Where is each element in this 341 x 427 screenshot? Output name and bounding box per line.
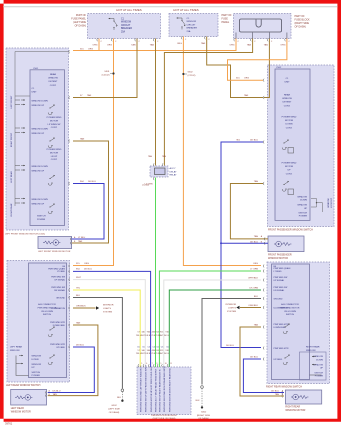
wire dk blue right rear switch to right rear motor [243, 359, 284, 393]
right rear motor symbol M4 [291, 394, 308, 400]
svg-text:(RIGHT SIDE: (RIGHT SIDE [197, 415, 211, 417]
wire tan F1 pin4 to accessory delay relay [155, 39, 157, 166]
svg-text:LIGHTS: LIGHTS [228, 307, 236, 309]
svg-text:TAN: TAN [148, 155, 153, 158]
svg-text:PWR WND SW DOWN RIGHT REAR WND: PWR WND SW DOWN RIGHT REAR WND INPUT [163, 365, 166, 412]
svg-text:WINDOW: WINDOW [282, 98, 293, 100]
wire tan right rear switch to right rear motor [240, 327, 284, 396]
wire black left rear switch to ground G1 [73, 298, 122, 389]
svg-text:ORG/BLK: ORG/BLK [76, 305, 86, 307]
svg-text:LF WINDOW: LF WINDOW [48, 124, 62, 126]
svg-text:A-B CONNECTOR: A-B CONNECTOR [38, 303, 56, 306]
svg-text:RIGHT REAR: RIGHT REAR [306, 345, 320, 348]
svg-text:PWR WND MTR: PWR WND MTR [274, 348, 289, 350]
svg-text:BLK: BLK [196, 400, 201, 402]
wire tan F1 pin3 to master switch [73, 39, 137, 98]
master switch symbol S4 [48, 203, 55, 213]
svg-text:DETENT: DETENT [283, 102, 292, 104]
svg-text:WINDOW UP: WINDOW UP [32, 105, 45, 107]
left rear motor body [11, 389, 47, 405]
svg-text:UP: UP [32, 367, 36, 369]
svg-text:SWITCH: SWITCH [37, 216, 46, 218]
left front motor symbol M1 [43, 240, 60, 246]
svg-text:CONT.: CONT. [286, 173, 293, 175]
svg-text:WINDOW DOWN: WINDOW DOWN [32, 100, 49, 102]
svg-text:TAN: TAN [201, 42, 206, 45]
accessory delay relay inner element [155, 168, 166, 175]
svg-text:SWITCH: SWITCH [314, 372, 323, 374]
svg-text:WINDOW: WINDOW [48, 78, 59, 80]
svg-text:G402: G402 [201, 412, 207, 414]
svg-text:POWER WIND: POWER WIND [282, 117, 297, 119]
right front switch body [268, 65, 335, 227]
master switch feed wire (internal) [15, 52, 69, 207]
svg-text:GROUND: GROUND [56, 297, 65, 299]
svg-text:TAN: TAN [150, 44, 155, 47]
svg-text:DK BLU: DK BLU [88, 181, 96, 183]
svg-text:TAN: TAN [131, 44, 136, 47]
fuse box F1 body [88, 14, 161, 39]
svg-text:ORG: ORG [253, 263, 258, 265]
svg-text:25A: 25A [121, 31, 126, 34]
svg-text:BLK: BLK [254, 296, 259, 298]
svg-text:UP: UP [320, 368, 324, 370]
svg-text:LEFT FRONT WINDOW MOTOR: LEFT FRONT WINDOW MOTOR [38, 251, 71, 253]
wire dk blue left rear switch to module [73, 271, 151, 367]
svg-text:POWER WIND: POWER WIND [47, 117, 62, 119]
svg-text:DELAY: DELAY [170, 170, 178, 173]
svg-text:DN SIGNAL: DN SIGNAL [54, 289, 66, 292]
svg-text:(C2102): (C2102) [102, 74, 110, 76]
svg-text:CB & DOWN: CB & DOWN [284, 311, 297, 313]
svg-text:DK G: DK G [164, 353, 169, 355]
wire tan master to left front motor down [72, 141, 109, 243]
svg-text:ORG/BLK: ORG/BLK [248, 305, 258, 307]
svg-text:PWR WND MTR: PWR WND MTR [50, 344, 65, 346]
svg-text:DK BLU: DK BLU [226, 345, 234, 347]
svg-text:INTERIOR: INTERIOR [103, 305, 114, 307]
svg-text:(LEFT SIDE OF DASH): (LEFT SIDE OF DASH) [153, 417, 176, 420]
right rear switch inner box [272, 264, 310, 380]
svg-text:WHT: WHT [76, 277, 82, 279]
svg-text:UP FEED: UP FEED [274, 359, 283, 361]
svg-text:DN SIGNAL: DN SIGNAL [274, 289, 286, 292]
svg-text:POWER: POWER [32, 375, 41, 377]
svg-text:POWER WIND: POWER WIND [282, 163, 297, 165]
svg-text:RIGHT FRONT: RIGHT FRONT [11, 132, 13, 147]
svg-text:TAN: TAN [275, 393, 280, 396]
svg-text:WINDOW: WINDOW [32, 356, 43, 358]
left rear switch inner box [29, 263, 67, 378]
svg-text:UP FEED: UP FEED [56, 347, 65, 349]
right rear switch body [267, 262, 330, 384]
wire dk green right rear switch to module [169, 290, 261, 367]
svg-text:TAN: TAN [254, 180, 259, 183]
svg-text:LR UP: LR UP [51, 156, 58, 158]
right front switch inner box [275, 69, 310, 220]
svg-text:LEFT FRONT: LEFT FRONT [11, 95, 13, 109]
svg-text:TAN: TAN [162, 155, 167, 158]
svg-text:SWITCH: SWITCH [298, 212, 307, 214]
svg-text:TAN: TAN [76, 321, 81, 324]
fuse box F2 body [169, 14, 218, 37]
svg-text:WINDOW MOTOR: WINDOW MOTOR [285, 409, 305, 412]
accessory delay relay pins [152, 163, 155, 166]
svg-text:PWR WND ACCY DELAY RELAY FEED: PWR WND ACCY DELAY RELAY FEED INPUT [155, 368, 158, 412]
ground G1 (left) [121, 389, 124, 392]
svg-text:RELAY: RELAY [170, 174, 178, 177]
svg-text:5: 5 [141, 363, 142, 365]
svg-text:DOWN: DOWN [316, 359, 323, 361]
svg-text:LT GRN: LT GRN [145, 184, 153, 186]
svg-text:PWR WND SW: PWR WND SW [51, 277, 65, 279]
svg-text:OF DASH): OF DASH) [198, 417, 209, 420]
wire white right rear switch to module [164, 280, 261, 367]
svg-text:ACCY: ACCY [170, 167, 177, 170]
svg-text:WINDOW DOWN: WINDOW DOWN [32, 199, 49, 201]
right front motor symbol M2 [274, 241, 291, 247]
svg-text:HOT AT ALL TIMES: HOT AT ALL TIMES [116, 8, 141, 12]
right rear switch loop wiring [310, 374, 322, 376]
svg-text:C502: C502 [276, 67, 282, 69]
svg-text:WINDOW: WINDOW [306, 350, 317, 352]
wire tan F2 pin2 to right front switch [207, 37, 263, 98]
svg-text:PWR WND MOTOR DOWN RIGHT REAR: PWR WND MOTOR DOWN RIGHT REAR WND [169, 367, 172, 412]
driver door module pin marks and numbers [137, 364, 140, 367]
svg-text:LIGHTS: LIGHTS [103, 308, 111, 310]
svg-text:RIGHT REAR: RIGHT REAR [10, 203, 13, 216]
wire orange F1 pin2 to left rear switch [73, 39, 114, 266]
svg-text:TAN: TAN [244, 94, 249, 97]
right front switch symbol S2 [282, 181, 289, 191]
svg-text:(LEFT SIDE: (LEFT SIDE [108, 408, 120, 410]
svg-text:BLK: BLK [76, 295, 81, 297]
svg-text:WINDOW: WINDOW [297, 196, 308, 198]
svg-text:POWER: POWER [315, 376, 324, 378]
right rear switch rows bottom box [300, 352, 327, 380]
svg-text:(C2102): (C2102) [188, 75, 196, 77]
svg-text:LEFT REAR WINDOW SWITCH: LEFT REAR WINDOW SWITCH [6, 384, 41, 387]
svg-text:7: 7 [152, 363, 153, 365]
right front motor body [268, 236, 304, 252]
wire white left rear switch to module [73, 280, 145, 367]
svg-text:ORG: ORG [107, 45, 112, 47]
svg-text:UP: UP [287, 170, 291, 172]
svg-text:PANEL: PANEL [222, 21, 230, 24]
svg-text:LT FEED: LT FEED [274, 271, 283, 273]
svg-text:TAN: TAN [264, 44, 269, 47]
svg-text:POWER WIND: POWER WIND [47, 149, 62, 151]
svg-text:ORG: ORG [88, 48, 93, 50]
left rear switch symbol S1 [48, 326, 55, 336]
svg-text:A-B CONNECTOR: A-B CONNECTOR [281, 303, 299, 306]
left rear switch loop wiring [16, 356, 29, 376]
svg-text:CONT.: CONT. [286, 127, 293, 129]
svg-text:DK BLU: DK BLU [76, 344, 84, 346]
svg-text:WINDOW: WINDOW [10, 350, 21, 352]
svg-text:REAR: REAR [50, 73, 56, 76]
left rear motor symbol M3 [15, 395, 32, 401]
svg-text:LEFT REAR: LEFT REAR [10, 345, 22, 348]
circuit breaker CB1 glyph [109, 18, 118, 30]
wire tan F3 pin2 to accessory delay relay [164, 39, 252, 166]
wire lt green relay to driver door module [155, 178, 157, 368]
master switch symbol S2 [48, 137, 55, 147]
svg-text:SWITCH: SWITCH [32, 372, 41, 374]
gray top rule [3, 6, 337, 8]
accessory delay relay body [150, 166, 168, 177]
svg-text:RIGHT REAR WINDOW SWITCH: RIGHT REAR WINDOW SWITCH [266, 385, 302, 388]
master switch symbol S1 [48, 104, 55, 114]
svg-text:CONT.: CONT. [50, 85, 57, 87]
svg-text:WINDOW UP: WINDOW UP [32, 203, 45, 205]
svg-text:SYSTEM: SYSTEM [227, 311, 236, 313]
svg-text:WINDOW: WINDOW [121, 22, 132, 24]
svg-text:DOWN: DOWN [286, 124, 293, 126]
svg-text:PWR WND SW UP LEFT FRONT WINDO: PWR WND SW UP LEFT FRONT WINDOW INPUT [146, 364, 148, 412]
svg-text:DK BLU: DK BLU [250, 356, 258, 358]
splice S1 on orange wire [112, 72, 114, 74]
svg-text:DK BLU: DK BLU [84, 269, 92, 271]
right rear switch pin rows text [262, 265, 265, 268]
master switch symbol S3 [48, 175, 55, 185]
svg-text:SWITCH: SWITCH [286, 314, 295, 316]
svg-text:PWR WND SW: PWR WND SW [51, 287, 65, 289]
svg-text:PWR WND MOTOR: PWR WND MOTOR [38, 307, 57, 309]
wire tan F3 pin3 join [264, 39, 269, 98]
svg-text:TAN: TAN [254, 323, 259, 326]
svg-text:ORG: ORG [93, 45, 98, 47]
svg-text:MOTOR: MOTOR [50, 152, 59, 154]
wire dk blue right front switch to motor and right rear switch [221, 142, 263, 348]
svg-text:PWR WND SW: PWR WND SW [274, 287, 288, 289]
svg-text:PWR WND MTR: PWR WND MTR [274, 324, 289, 326]
wire dk blue left rear switch to left rear motor [48, 347, 95, 393]
svg-text:SYSTEM: SYSTEM [103, 311, 112, 313]
svg-text:CONT.: CONT. [284, 105, 291, 107]
fuse box F3 body [234, 14, 292, 39]
svg-text:BREAKER: BREAKER [187, 27, 198, 30]
svg-text:UP SIGNAL: UP SIGNAL [54, 278, 66, 281]
svg-text:MOTOR: MOTOR [285, 120, 294, 122]
svg-text:HOT AT ALL TIMES: HOT AT ALL TIMES [173, 8, 198, 12]
svg-text:CB & DOWN: CB & DOWN [41, 311, 54, 313]
left front motor body [38, 237, 72, 249]
fuse box F2 pins [180, 36, 183, 39]
svg-text:DOWN FEED: DOWN FEED [53, 325, 66, 327]
svg-text:DOWN: DOWN [32, 359, 39, 361]
svg-text:PWR WND SW: PWR WND SW [274, 277, 288, 279]
svg-text:LT FEED: LT FEED [57, 271, 66, 273]
right rear motor body [285, 390, 321, 404]
ground G2 (right) [201, 386, 204, 389]
left rear switch body [7, 261, 70, 383]
svg-text:REAR: REAR [284, 94, 290, 97]
svg-text:DOWN: DOWN [300, 200, 307, 202]
svg-text:DK G: DK G [164, 335, 169, 337]
svg-text:ORG: ORG [84, 263, 89, 265]
wire tan left rear switch to left rear motor [48, 325, 98, 396]
svg-text:MOTOR: MOTOR [50, 120, 59, 122]
svg-text:9: 9 [160, 363, 161, 365]
wire yellow left rear switch to module [73, 290, 140, 367]
wire orange F2 pin1 to right rear switch [183, 37, 261, 266]
svg-text:INTERIOR: INTERIOR [226, 304, 237, 306]
svg-text:PWR WND SW DOWN LEFT FRONT WIN: PWR WND SW DOWN LEFT FRONT WINDOW IN [140, 365, 142, 412]
svg-text:CONT.: CONT. [51, 159, 58, 161]
svg-text:PWR WND QUASI: PWR WND QUASI [48, 267, 65, 270]
svg-text:DK BLU: DK BLU [250, 242, 258, 244]
wire illumination right to interior lights arrow [240, 307, 261, 309]
right rear switch symbol S2 [283, 354, 290, 364]
svg-text:DOWN FEED: DOWN FEED [274, 327, 287, 329]
left rear switch symbol S2 [48, 354, 55, 364]
wire lt green right rear switch to module [159, 271, 261, 367]
svg-text:11: 11 [170, 363, 172, 365]
svg-text:39761: 39761 [5, 422, 13, 426]
svg-text:PWR WND MTR: PWR WND MTR [50, 322, 65, 324]
svg-text:TAN: TAN [87, 94, 92, 97]
svg-text:WINDOW: WINDOW [328, 198, 330, 207]
svg-text:10: 10 [165, 363, 167, 365]
svg-text:UP: UP [304, 208, 308, 210]
wire orange feed F1/F3 to master switch [73, 39, 99, 51]
svg-text:DK BLU: DK BLU [250, 139, 258, 141]
svg-text:FRONT PASSENGER WINDOW SWITCH: FRONT PASSENGER WINDOW SWITCH [268, 229, 313, 232]
svg-text:POWER: POWER [299, 216, 308, 218]
bus bar in F3 [240, 19, 282, 32]
right rear switch symbol S1 [283, 323, 290, 333]
svg-text:PWR WND SW UP RIGHT REAR WINDO: PWR WND SW UP RIGHT REAR WINDOW IN [159, 369, 162, 412]
svg-text:S302: S302 [188, 71, 194, 73]
window lockout wiring [311, 199, 317, 208]
wire tan right front switch to right front motor [230, 184, 268, 239]
svg-text:ORG: ORG [177, 43, 182, 45]
svg-text:POWER: POWER [37, 219, 46, 221]
svg-text:SWITCH: SWITCH [43, 314, 52, 316]
left rear switch pin rows text [68, 265, 71, 268]
svg-text:G302: G302 [111, 405, 117, 407]
splice S2 on orange wire 2 [182, 73, 184, 75]
master switch contact arrows [15, 99, 20, 101]
svg-text:PWR WND MOTOR UP LEFT FRONT WN: PWR WND MOTOR UP LEFT FRONT WND OUT [151, 366, 153, 412]
svg-text:UP SIGNAL: UP SIGNAL [274, 279, 286, 282]
right front switch symbol S1 [282, 139, 289, 149]
svg-text:WINDOW DOWN: WINDOW DOWN [32, 166, 49, 168]
svg-text:MOTOR: MOTOR [285, 166, 294, 168]
circuit breaker CB2 glyph [177, 17, 186, 29]
svg-text:PWR WND MOTOR: PWR WND MOTOR [281, 307, 300, 309]
fuse box F3 pins [235, 33, 237, 39]
svg-text:WINDOW DOWN: WINDOW DOWN [32, 128, 49, 130]
svg-text:ORG: ORG [244, 78, 249, 80]
svg-text:OF DASH): OF DASH) [75, 25, 87, 28]
svg-text:OF DASH): OF DASH) [295, 25, 307, 28]
svg-text:WHT/BLK: WHT/BLK [248, 277, 258, 279]
svg-text:WINDOW UP: WINDOW UP [32, 133, 45, 135]
svg-text:WINDOW UP: WINDOW UP [32, 170, 45, 172]
svg-text:WINDOW MOTOR: WINDOW MOTOR [268, 257, 288, 260]
svg-text:CIRCUIT: CIRCUIT [187, 24, 197, 26]
svg-text:UNIT: UNIT [32, 92, 38, 94]
svg-text:ORG: ORG [280, 45, 285, 47]
right front switch pins [262, 79, 265, 82]
svg-text:LT GRN: LT GRN [250, 268, 258, 270]
wire dk blue master to left front motor up [72, 184, 104, 240]
svg-text:WINDOW MOTOR: WINDOW MOTOR [11, 411, 31, 414]
svg-text:OF DASH): OF DASH) [109, 411, 120, 414]
svg-text:6: 6 [146, 363, 147, 365]
wire black right rear switch to ground G2 [202, 299, 261, 385]
svg-text:C501: C501 [33, 68, 39, 70]
svg-text:UNIT: UNIT [284, 82, 290, 84]
svg-text:CONT.: CONT. [51, 127, 58, 129]
svg-text:PWR WND QUASI: PWR WND QUASI [274, 267, 291, 270]
svg-text:WINDOW: WINDOW [297, 205, 308, 207]
svg-text:WINDOW: WINDOW [187, 21, 198, 23]
master switch inner box [30, 70, 65, 226]
svg-text:DETENT: DETENT [49, 81, 58, 83]
svg-text:ORG: ORG [230, 45, 235, 47]
svg-text:TAN: TAN [80, 137, 85, 140]
svg-text:LOCKOUT: LOCKOUT [331, 197, 333, 208]
driver door module body [137, 367, 191, 415]
svg-text:DK GRN: DK GRN [249, 287, 258, 289]
svg-text:CIRCUIT: CIRCUIT [121, 25, 131, 27]
svg-text:TAN: TAN [247, 44, 252, 47]
wire orange F3 pin4 to right front switch [228, 39, 287, 81]
svg-text:S301: S301 [104, 71, 110, 73]
svg-text:25A: 25A [187, 30, 191, 33]
svg-text:LEFT REAR: LEFT REAR [10, 171, 13, 183]
svg-text:LEFT FRONT WINDOW SWITCH (C50: LEFT FRONT WINDOW SWITCH (C501) [5, 233, 45, 235]
driver master switch body [6, 48, 69, 230]
svg-text:WINDOW: WINDOW [32, 364, 43, 366]
fuse box F1 pins [96, 38, 99, 41]
svg-text:BLK: BLK [117, 397, 122, 399]
svg-text:BREAKER: BREAKER [121, 27, 132, 30]
svg-text:TAN: TAN [254, 235, 259, 238]
wire illumination left to interior lights arrow [73, 307, 96, 309]
svg-text:GROUND: GROUND [274, 298, 283, 300]
